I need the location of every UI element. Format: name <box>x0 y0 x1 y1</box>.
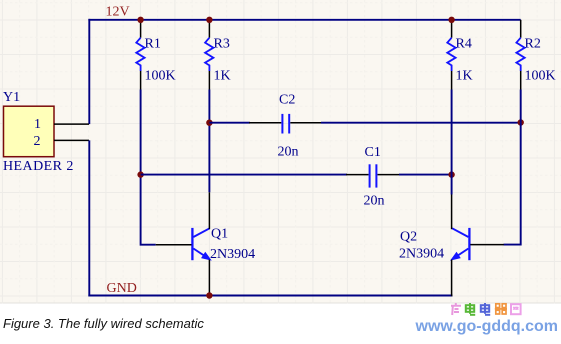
wire C1-row junction down to Q2 collector pin <box>451 175 453 195</box>
wire R2 bottom to C2-row junction <box>520 90 522 123</box>
junction dot on 12V rail at R3 <box>206 17 212 23</box>
svg-text:100K: 100K <box>525 69 556 84</box>
svg-text:C1: C1 <box>365 145 381 160</box>
wire R1 bottom to C1-row junction <box>140 90 142 175</box>
svg-text:R1: R1 <box>145 36 161 51</box>
wire C1 row right segment to R4 column <box>399 174 452 176</box>
junction dot on C2 row at R2 column <box>518 119 524 125</box>
svg-text:GND: GND <box>107 281 137 296</box>
svg-text:1K: 1K <box>214 69 231 84</box>
watermark Chinese characters 广电电器网 <box>449 302 523 316</box>
wire GND bottom rail <box>88 295 452 297</box>
transistor Q2 2N3904 (mirrored) <box>452 195 504 297</box>
svg-text:Q1: Q1 <box>211 227 228 242</box>
capacitor C1 (20n) <box>346 164 400 187</box>
svg-text:2N3904: 2N3904 <box>210 247 255 262</box>
wire C2 row left segment <box>209 122 250 124</box>
svg-text:R3: R3 <box>214 36 230 51</box>
resistor R4 (1K) <box>447 20 455 90</box>
junction dot on GND rail at Q1 emitter <box>206 292 212 298</box>
svg-text:R4: R4 <box>456 36 472 51</box>
wire C2 row right segment to R2 column <box>321 122 521 124</box>
capacitor C2 (20n) <box>249 114 322 134</box>
svg-text:1: 1 <box>34 117 41 132</box>
wire R3 bottom to C2-row junction <box>208 90 210 123</box>
resistor R3 (1K) <box>205 20 213 90</box>
svg-text:12V: 12V <box>106 5 130 20</box>
wire junction down to Q1 base corner <box>141 175 156 245</box>
wire C2-row junction down to Q1 collector pin <box>208 123 210 193</box>
resistor R2 (100K) <box>516 20 524 90</box>
caption: Figure 3 <box>3 316 204 331</box>
svg-text:Q2: Q2 <box>400 229 417 244</box>
svg-text:2N3904: 2N3904 <box>399 247 444 262</box>
wire R4 bottom to C1-row junction <box>451 90 453 175</box>
junction dot on 12V rail at R1 <box>137 17 143 23</box>
svg-text:C2: C2 <box>279 93 295 108</box>
svg-text:100K: 100K <box>145 69 176 84</box>
junction dot on C1 row at R4 column <box>448 171 454 177</box>
svg-text:20n: 20n <box>278 145 299 160</box>
svg-text:R2: R2 <box>525 36 541 51</box>
junction dot on C1 row at R1 column <box>137 171 143 177</box>
junction dot on 12V rail at R4 <box>448 17 454 23</box>
connector Y1 body <box>4 106 55 157</box>
junction dot on C2 row at R3 column <box>206 120 212 126</box>
wire 12V top rail <box>88 19 520 21</box>
wire C1 row left segment from R1 junction <box>141 174 347 176</box>
svg-text:2: 2 <box>34 134 41 149</box>
wire left vertical: Y1 pin 2 to GND rail <box>88 140 90 296</box>
pin 1 of Y1 <box>34 117 89 132</box>
svg-text:HEADER 2: HEADER 2 <box>3 159 74 174</box>
svg-text:Y1: Y1 <box>3 90 20 105</box>
svg-text:20n: 20n <box>364 193 385 208</box>
wire left vertical: 12V rail to Y1 pin 1 <box>88 19 90 124</box>
watermark www.go-gddq.com <box>416 318 559 336</box>
svg-text:1K: 1K <box>456 69 473 84</box>
wire R2 column down to Q2 base corner <box>504 123 521 245</box>
transistor Q1 2N3904 <box>156 192 211 295</box>
pin 2 of Y1 <box>34 134 90 149</box>
resistor R1 (100K) <box>136 20 144 90</box>
